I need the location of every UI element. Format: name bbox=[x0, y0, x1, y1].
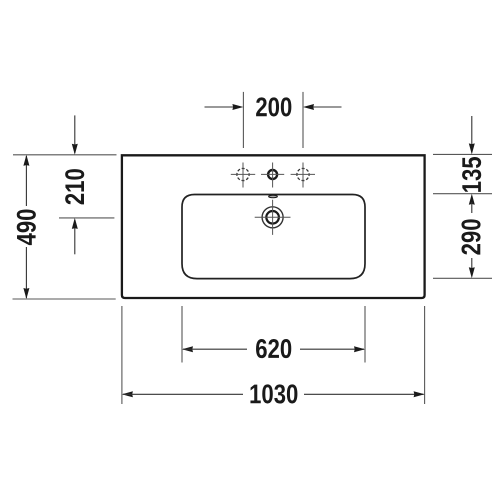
dim 200 label bbox=[256, 97, 291, 116]
dim 490 top tick bbox=[13, 154, 117, 156]
dim 490 down arrow bbox=[23, 288, 29, 299]
dim 210 down arrow (above top tick) bbox=[72, 144, 78, 155]
faucet hole right crosshair bbox=[291, 163, 315, 188]
dim 620 right arrow bbox=[354, 346, 365, 352]
dim 620 line right segment bbox=[300, 348, 364, 350]
drain inner circle bbox=[266, 211, 279, 224]
drain crosshair bbox=[255, 200, 291, 235]
dim 210 up arrow (below drain tick) bbox=[72, 218, 78, 229]
faucet hole left crosshair bbox=[231, 163, 255, 188]
dim 620 line left segment bbox=[183, 348, 247, 350]
dim 200 extension line left bbox=[242, 92, 244, 148]
faucet hole center (solid) bbox=[268, 170, 277, 179]
dim 1030 extension line right bbox=[424, 306, 426, 404]
dim 290 up arrow (below mid tick) bbox=[469, 194, 475, 205]
dim 290 upper segment bbox=[471, 202, 473, 213]
dim 210 lower arrow line bbox=[74, 220, 76, 254]
dim 200 left arrow bbox=[205, 106, 242, 108]
dim 620 left arrow bbox=[182, 346, 193, 352]
dim 1030 line right segment bbox=[304, 393, 424, 395]
dim 200 extension line right bbox=[302, 92, 304, 148]
dim 135 down arrow bbox=[469, 143, 475, 154]
basin outer outline bbox=[122, 155, 425, 298]
dim 290 down arrow bbox=[469, 267, 475, 278]
dim 290 lower segment bbox=[471, 258, 473, 272]
dim 490 up arrow bbox=[23, 155, 29, 166]
dim 210 upper arrow line bbox=[74, 115, 76, 152]
dim 200 right arrow bbox=[305, 106, 342, 108]
dim 620 extension line right bbox=[364, 306, 366, 363]
dim 490 line upper segment bbox=[25, 156, 27, 206]
overflow slot bbox=[269, 195, 278, 197]
dim 620 extension line left bbox=[181, 306, 183, 363]
dim 1030 line left segment bbox=[123, 393, 243, 395]
dim 135 mid tick bbox=[433, 193, 492, 195]
dim 1030 label bbox=[250, 384, 297, 403]
dim 210 label bbox=[65, 169, 84, 204]
dim 135 label bbox=[462, 157, 481, 192]
dim 620 label bbox=[256, 339, 291, 358]
faucet hole left (dashed) bbox=[237, 168, 249, 180]
dim 490 line lower segment bbox=[25, 247, 27, 298]
dim 1030 extension line left bbox=[121, 306, 123, 404]
faucet hole right (dashed) bbox=[297, 168, 309, 180]
faucet hole center crosshair bbox=[261, 163, 284, 188]
dim 135 upper arrow line bbox=[471, 116, 473, 152]
inner bowl outline bbox=[182, 195, 365, 279]
dim 1030 right arrow bbox=[414, 391, 425, 397]
dim 1030 left arrow bbox=[122, 391, 133, 397]
dim 490 label bbox=[17, 209, 36, 245]
dim 290 label bbox=[461, 219, 480, 254]
dim 135 top tick bbox=[433, 153, 492, 155]
dim 210 tick at drain level bbox=[59, 217, 114, 219]
drain outer circle bbox=[262, 207, 283, 228]
dim 490 bottom tick bbox=[13, 298, 116, 300]
dim 290 bottom tick bbox=[433, 277, 492, 279]
